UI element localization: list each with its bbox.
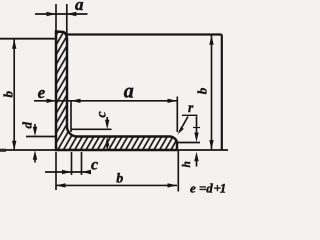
dimension line c lower <box>45 171 90 173</box>
underline of label r <box>182 114 198 116</box>
arrowhead top-right points left <box>67 12 77 16</box>
angle profile cross-section (hatched L-section) <box>56 32 177 151</box>
arrowhead c-upper points down at root line <box>105 120 109 130</box>
extension line below inner face x=71.5 <box>71 152 73 175</box>
extension line top-left (tip level to left edge) <box>0 38 56 40</box>
extension line below fillet root x=81.5 <box>81 152 83 175</box>
top boundary line <box>68 33 222 35</box>
svg-text:r: r <box>188 100 194 115</box>
arrowhead c-lower points right <box>62 170 72 174</box>
extension line below outer face x=56 <box>55 152 57 190</box>
dimension line a (top) <box>35 13 88 15</box>
arrowhead right-b up <box>209 35 213 45</box>
scan mark at left edge <box>0 149 6 152</box>
dimension line b left <box>13 40 15 150</box>
svg-text:c: c <box>91 156 98 173</box>
h upper tick <box>193 127 200 129</box>
bottom extension line (bottom face extended) <box>0 149 228 151</box>
svg-text:d: d <box>20 122 35 129</box>
arrowhead c-lower points left <box>82 170 92 174</box>
dimension c upper shaft <box>106 117 108 124</box>
arrowhead a-right points right at leg end <box>168 99 178 103</box>
svg-text:a: a <box>124 81 134 103</box>
extension line fillet root vertical x=71 <box>70 101 72 132</box>
arrowhead d-lower points up at bottom face <box>33 150 37 160</box>
arrowhead left-b up <box>12 39 16 49</box>
dimension line b right <box>211 36 213 150</box>
arrowhead e points right at outer face <box>47 99 57 103</box>
svg-text:h: h <box>181 161 193 167</box>
arrowhead bottom-b left <box>56 183 66 187</box>
svg-text:b: b <box>1 91 16 98</box>
h lower shaft <box>196 159 198 167</box>
svg-text:e=d+1: e=d+1 <box>190 180 226 195</box>
extension line below end face x=178.3 <box>177 151 179 192</box>
arrowhead h-lower points up <box>194 152 198 162</box>
h upper shaft <box>196 116 198 133</box>
right boundary line <box>221 35 223 151</box>
arrowhead bottom-b right <box>168 183 178 187</box>
arrowhead c-upper points up at top face <box>105 137 109 147</box>
arrowhead right-b down <box>209 140 213 150</box>
extension line top face extended left <box>26 136 56 138</box>
arrowhead left-b down <box>12 141 16 151</box>
svg-text:b: b <box>116 172 123 187</box>
svg-text:a: a <box>75 0 84 14</box>
svg-text:c: c <box>94 111 109 118</box>
arrowhead a-left points left at fillet root <box>71 99 81 103</box>
leader line r <box>180 117 189 132</box>
arrowhead h-upper points down <box>194 133 198 143</box>
d lower shaft <box>34 160 36 163</box>
extension line fillet root horizontal y=129.3 <box>71 128 112 130</box>
dimension line b bottom <box>56 184 177 186</box>
svg-text:e: e <box>38 83 46 102</box>
arrowhead d-upper points down at top face <box>33 127 37 137</box>
extension line above left face x=56 <box>55 4 57 31</box>
svg-text:b: b <box>194 87 209 94</box>
d upper shaft <box>34 124 36 128</box>
arrowhead r points at toe radius <box>178 127 184 135</box>
extension line above inner face x=67 <box>66 4 68 36</box>
extension line h top of end face <box>178 142 201 144</box>
arrowhead top-left points right <box>47 12 57 16</box>
dimension line e and a (through leg) <box>34 100 177 102</box>
extension line leg end x=177.3 <box>176 97 178 133</box>
dimension c upper lower shaft <box>106 144 108 149</box>
